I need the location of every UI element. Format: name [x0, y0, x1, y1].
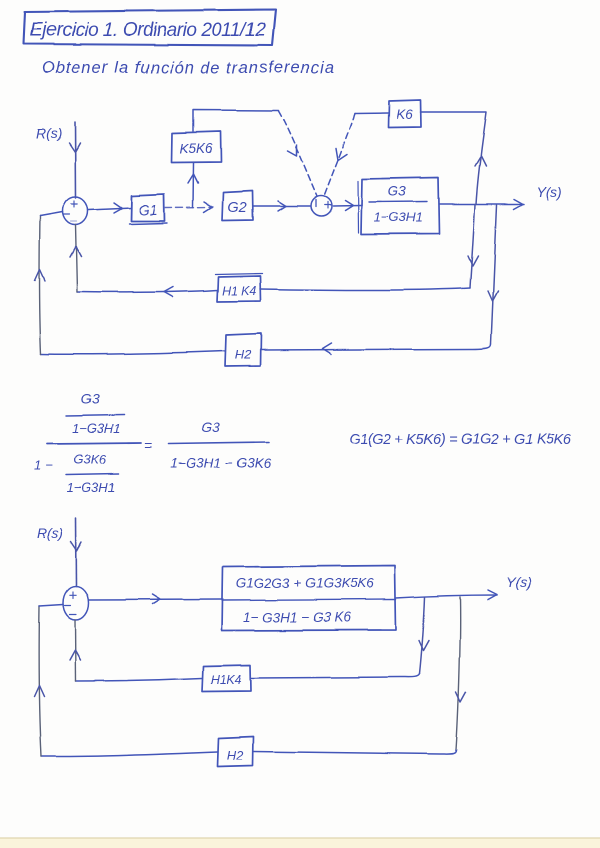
- block G2: [222, 191, 253, 221]
- wire H1K4 right segment: [260, 288, 470, 290]
- arrowhead G2 to S2: [278, 201, 286, 211]
- svg-text:Y(s): Y(s): [506, 574, 532, 590]
- wire K5K6 up and right: [193, 110, 279, 131]
- svg-text:=: =: [144, 437, 152, 453]
- math right bar: [168, 442, 269, 444]
- svg-text:H2: H2: [235, 347, 252, 362]
- arrowhead down into S1: [69, 143, 80, 152]
- block H2 bottom: [217, 737, 253, 768]
- svg-text:G1G2G3 + G1G3K5K6: G1G2G3 + G1G3K5K6: [236, 576, 375, 591]
- svg-text:H1K4: H1K4: [210, 673, 241, 687]
- wire into S3 left: [39, 605, 63, 607]
- wire H2 left segment: [41, 351, 225, 354]
- arrowhead diagonal into S2: [288, 145, 297, 156]
- arrowhead at Y(s) bottom: [488, 590, 497, 600]
- svg-text:1− G3H1 − G3 K6: 1− G3H1 − G3 K6: [243, 610, 352, 625]
- wire diagonal K5K6 to S2 dashed: [279, 111, 317, 196]
- arrowhead at Y(s): [514, 199, 523, 209]
- wire diagonal K6 to S2 dashed: [324, 114, 355, 197]
- block K6: [388, 100, 421, 128]
- block G3/(1-G3H1): [361, 178, 439, 235]
- wire left vertical up to S1: [40, 216, 41, 354]
- svg-text:1−G3H1: 1−G3H1: [374, 210, 423, 225]
- wire up into S1 bottom: [76, 225, 78, 292]
- svg-text:R(s): R(s): [37, 525, 63, 541]
- wire H1K4 left bottom: [76, 678, 202, 681]
- arrowhead on wire to block: [152, 595, 160, 605]
- svg-text:R(s): R(s): [36, 125, 62, 141]
- wire K6 left segment: [355, 112, 388, 115]
- arrowhead down tap2: [456, 692, 466, 702]
- arrowhead up into K5K6: [188, 174, 198, 183]
- wire tap1 down bottom: [420, 597, 426, 674]
- wire G3 block to Y(s): [439, 203, 524, 205]
- S3 minus bottom: [70, 614, 77, 616]
- svg-text:1−G3H1: 1−G3H1: [72, 421, 121, 436]
- wire S2 to G3 block: [333, 205, 361, 208]
- summing junction S3: [63, 586, 89, 620]
- arrowhead down tap1: [419, 641, 429, 651]
- S1 minus left: [64, 214, 70, 216]
- wire H2 right segment: [261, 344, 491, 350]
- arrowhead left on H2 wire: [322, 343, 331, 354]
- svg-text:1−G3H1 − G3K6: 1−G3H1 − G3K6: [171, 456, 272, 471]
- arrowhead up on left vertical: [35, 269, 45, 280]
- S2 plus sign: [324, 202, 331, 209]
- S1 minus bottom: [71, 221, 77, 223]
- arrowhead K6 diagonal into S2: [336, 148, 347, 160]
- S2 tick sign: [315, 200, 317, 208]
- svg-text:G1(G2 + K5K6) = G1G2 + G1 K5K: G1(G2 + K5K6) = G1G2 + G1 K5K6: [349, 432, 572, 448]
- arrowhead down on H1K4 tap: [468, 256, 478, 266]
- svg-text:H1 K4: H1 K4: [222, 284, 257, 298]
- arrowhead into G3 block: [345, 201, 353, 211]
- arrowhead left on H1K4 wire: [163, 287, 172, 297]
- wire K6 right segment: [420, 111, 486, 113]
- svg-text:G2: G2: [227, 200, 246, 216]
- svg-text:Y(s): Y(s): [536, 184, 562, 200]
- S1 plus sign: [71, 201, 77, 208]
- wire tap2 down bottom: [456, 597, 460, 750]
- wire left vertical bottom: [39, 606, 41, 757]
- wire branch up to K5K6: [192, 163, 195, 207]
- wire S3 to block: [89, 599, 222, 602]
- summing junction S2: [311, 196, 332, 217]
- S3 minus left: [65, 605, 71, 607]
- wire G2 to S2: [253, 205, 310, 207]
- svg-text:K5K6: K5K6: [179, 141, 213, 156]
- arrowhead up into S3: [70, 650, 81, 660]
- svg-text:G1: G1: [138, 203, 157, 219]
- block G1: [131, 195, 165, 222]
- svg-text:G3: G3: [81, 391, 100, 407]
- svg-text:1 −: 1 −: [34, 458, 53, 473]
- svg-text:K6: K6: [396, 107, 413, 122]
- math bar small top: [66, 415, 124, 416]
- big transfer function block: [222, 566, 396, 631]
- svg-text:G3: G3: [202, 419, 221, 435]
- wire G1 to G2: [165, 206, 213, 209]
- svg-text:G3K6: G3K6: [73, 452, 107, 467]
- svg-text:H2: H2: [227, 748, 244, 763]
- arrowhead down into S3: [71, 542, 82, 551]
- wire tap up to K6: [476, 112, 487, 204]
- arrowhead up into K6 line: [475, 156, 486, 166]
- svg-text:Ejercicio 1. Ordinario 2011/12: Ejercicio 1. Ordinario 2011/12: [30, 20, 266, 41]
- svg-text:1−G3H1: 1−G3H1: [67, 480, 116, 495]
- svg-text:Obtener la función de transfer: Obtener la función de transferencia: [42, 59, 334, 77]
- arrowhead down on H2 tap: [488, 291, 498, 301]
- wire R(s) input: [74, 122, 77, 198]
- title box: [24, 10, 276, 46]
- big block fraction bar: [222, 600, 396, 601]
- block H1K4: [217, 276, 261, 302]
- arrowhead up into S1 bottom: [70, 247, 81, 257]
- bottom scan strip: [0, 838, 600, 848]
- block H1K4 bottom: [202, 665, 251, 692]
- arrowhead into G1: [114, 203, 122, 213]
- block H2: [225, 334, 261, 367]
- wire H1K4 right bottom: [251, 674, 420, 678]
- math main bar: [47, 443, 141, 444]
- fraction bar in block: [369, 201, 427, 204]
- wire S1 to G1: [88, 208, 131, 210]
- wire H2 right bottom: [253, 750, 456, 754]
- wire tap down to H1K4: [470, 204, 475, 288]
- wire H1K4 left segment: [77, 290, 217, 292]
- arrowhead into G2: [204, 202, 212, 212]
- wire H2 left bottom: [41, 752, 217, 757]
- wire tap down to H2: [491, 205, 497, 344]
- arrowhead up left vertical bottom: [34, 686, 44, 697]
- summing junction S1: [63, 197, 88, 225]
- wire up into S3 bottom: [75, 620, 78, 681]
- S3 plus sign: [70, 592, 76, 599]
- wire block to Y(s) bottom: [396, 595, 497, 598]
- math bar small bottom: [66, 474, 119, 475]
- svg-text:G3: G3: [388, 183, 407, 199]
- wire R(s) input bottom: [75, 518, 78, 586]
- block K5K6: [172, 132, 222, 163]
- wire into S1 left: [40, 212, 63, 216]
